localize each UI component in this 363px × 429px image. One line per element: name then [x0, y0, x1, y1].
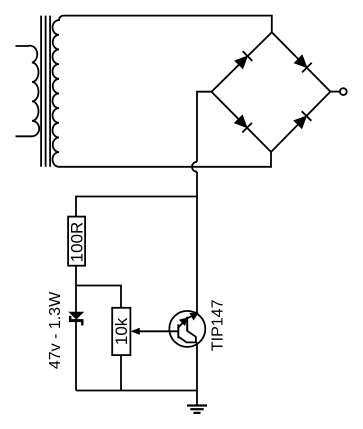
wire junction to pot top [76, 286, 121, 308]
transistor Q1 emitter 1 with arrow [178, 319, 186, 328]
svg-text:47v - 1.3W: 47v - 1.3W [47, 291, 64, 369]
wire branch to 100R [76, 197, 197, 217]
transistor Q1 base bar 2 [186, 317, 188, 332]
transformer T1 secondary winding [52, 16, 63, 167]
diode D4 (bottom-right edge) [293, 111, 311, 129]
wire hop over transformer lead [192, 162, 197, 172]
wire bridge right vertex to output terminal [330, 91, 340, 93]
transformer T1 primary winding [16, 46, 40, 137]
svg-text:100R: 100R [67, 222, 86, 263]
wire bridge left vertex down to hop [197, 92, 212, 162]
diode D1 (top-left edge) [234, 51, 252, 69]
transistor Q1 TIP147 circle [169, 311, 205, 347]
output terminal [340, 88, 347, 95]
wire bottom rail [76, 390, 197, 392]
transistor Q1 collector 2 [187, 331, 196, 343]
transistor Q1 collector 1 [178, 337, 196, 343]
wire zener bottom to bottom rail [75, 322, 77, 390]
svg-text:TIP147: TIP147 [209, 299, 226, 351]
wire junction to zener top [75, 286, 77, 313]
diode D2 (top-right edge) [294, 55, 312, 73]
wire pot bottom to bottom rail [120, 355, 122, 390]
svg-text:10k: 10k [112, 317, 131, 345]
wire collector to ground [196, 342, 197, 405]
wire 100R bottom to junction [75, 266, 77, 286]
resistor R1 100R box [68, 217, 85, 266]
wire main vertical down to transistor emitter [196, 172, 198, 314]
potentiometer R2 10k box [112, 308, 130, 355]
wire secondary top lead to bridge top [64, 16, 272, 33]
transistor Q1 emitter 2 with arrow [187, 314, 197, 319]
wire secondary bottom lead to bridge bottom [59, 152, 271, 167]
transistor Q1 base bar 1 [177, 324, 179, 338]
potentiometer wiper arrow to transistor base [131, 328, 179, 335]
transformer T1 core lines [41, 16, 50, 167]
diode D3 (bottom-left edge) [234, 115, 252, 133]
bridge rectifier diamond [212, 32, 331, 152]
ground symbol [187, 406, 207, 413]
zener diode D5 [69, 312, 84, 325]
